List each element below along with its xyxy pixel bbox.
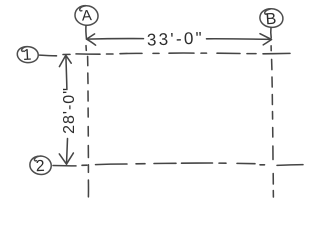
grid line A vertical dashes <box>85 46 87 51</box>
grid line B vertical dashes <box>270 46 272 51</box>
dimension line 33'-0" right part <box>207 38 272 41</box>
svg-text:1: 1 <box>22 47 32 64</box>
svg-text:B: B <box>265 11 277 29</box>
grid line 1 (horizontal dash-dot) <box>40 54 57 57</box>
dimension line 33'-0" left part <box>87 38 144 41</box>
dim arrow right <box>260 34 272 45</box>
svg-text:A: A <box>81 7 92 25</box>
svg-text:28'-0": 28'-0" <box>61 87 78 134</box>
vdim arrow down <box>59 153 73 164</box>
vdim arrow up <box>59 55 71 66</box>
vertical dimension line upper part <box>66 56 67 90</box>
grid line 2 (horizontal dash-dot) <box>53 165 76 167</box>
stem from bubble A <box>85 26 88 40</box>
stem from bubble B <box>270 28 272 38</box>
svg-text:2: 2 <box>35 158 45 175</box>
grid bubble 2 <box>30 156 51 174</box>
grid bubble A <box>75 6 98 26</box>
svg-text:33'-0": 33'-0" <box>147 29 205 50</box>
grid bubble B <box>260 9 283 28</box>
vertical dimension line lower part <box>67 139 68 164</box>
dim arrow left <box>87 34 96 45</box>
grid bubble 1 <box>17 47 38 63</box>
